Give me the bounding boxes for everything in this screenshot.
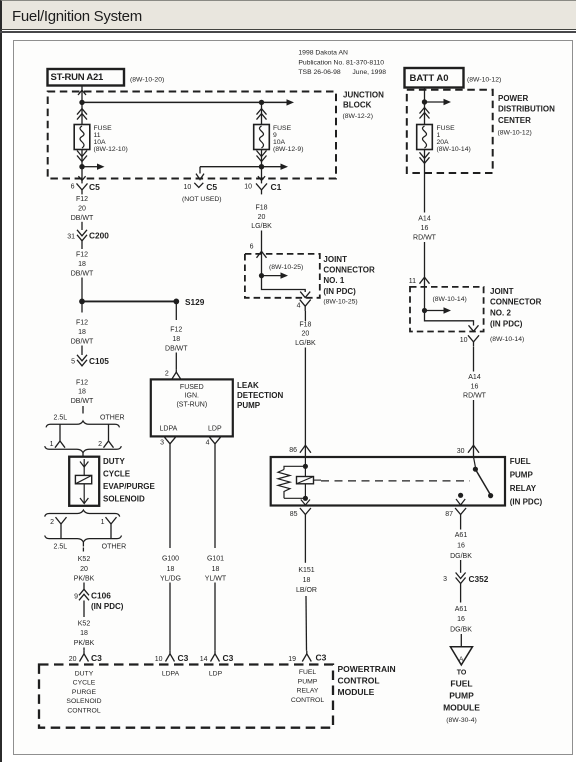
svg-text:20: 20 [69, 656, 77, 663]
svg-text:LB/OR: LB/OR [296, 587, 317, 594]
svg-text:RELAY: RELAY [297, 688, 319, 695]
svg-text:10A: 10A [273, 139, 286, 146]
svg-text:F12: F12 [76, 196, 88, 203]
svg-text:RD/WT: RD/WT [463, 393, 487, 400]
svg-text:16: 16 [457, 542, 465, 549]
svg-text:K52: K52 [78, 620, 91, 627]
svg-text:PUMP: PUMP [298, 678, 318, 685]
fuse F1 (FUSE 1 20A) [417, 125, 433, 150]
svg-text:LEAK: LEAK [237, 381, 259, 390]
svg-text:NO. 1: NO. 1 [323, 276, 344, 285]
svg-text:DB/WT: DB/WT [165, 345, 188, 352]
svg-text:19: 19 [288, 656, 296, 663]
svg-text:BATT A0: BATT A0 [410, 73, 449, 84]
svg-text:MODULE: MODULE [443, 702, 480, 712]
wire branch arrow right [262, 166, 282, 168]
leak detection pump box [151, 379, 233, 436]
wire JC2 internal jog [425, 311, 474, 326]
svg-text:85: 85 [290, 511, 298, 518]
joint connector no. 2 dashed box [410, 287, 484, 332]
svg-text:PUMP: PUMP [237, 401, 261, 410]
svg-text:18: 18 [78, 329, 86, 336]
wire BATT A0 into PDC [424, 88, 426, 102]
svg-text:18: 18 [80, 630, 88, 637]
wire S129 to LDP pin 2 [175, 301, 177, 320]
brace split below solenoid [45, 510, 120, 516]
wire bus to fuse 9 [261, 102, 263, 124]
svg-text:(8W-30-4): (8W-30-4) [446, 717, 476, 724]
svg-text:3: 3 [443, 576, 447, 583]
svg-text:C5: C5 [206, 182, 217, 192]
svg-text:86: 86 [289, 447, 297, 454]
svg-text:RD/WT: RD/WT [413, 235, 437, 242]
svg-text:PK/BK: PK/BK [74, 640, 95, 647]
wire JC1 to relay pin 86 [304, 311, 306, 321]
svg-text:G100: G100 [162, 556, 179, 563]
svg-text:A: A [459, 656, 464, 663]
svg-text:11: 11 [94, 132, 101, 139]
svg-text:OTHER: OTHER [100, 415, 125, 422]
svg-text:F12: F12 [76, 379, 88, 386]
svg-text:10A: 10A [94, 139, 107, 146]
svg-text:(8W-10-12): (8W-10-12) [467, 77, 501, 84]
svg-text:F12: F12 [76, 252, 88, 259]
svg-text:PK/BK: PK/BK [74, 575, 95, 582]
svg-text:87: 87 [445, 511, 453, 518]
wire bus to fuse 11 [81, 102, 83, 124]
svg-text:FUSE: FUSE [437, 125, 456, 132]
svg-text:C3: C3 [223, 653, 234, 663]
svg-text:DB/WT: DB/WT [71, 398, 94, 405]
svg-text:TSB 26-06-98: TSB 26-06-98 [298, 69, 341, 76]
PCM pin 19 C3 [306, 651, 308, 654]
svg-text:C5: C5 [89, 182, 100, 192]
relay coil box [297, 477, 314, 484]
horizontal rule under header [0, 31, 576, 32]
connector pin 1 (2.5L) [59, 424, 61, 441]
svg-text:DUTY: DUTY [75, 671, 94, 678]
wire G100 [169, 449, 171, 549]
svg-text:DETECTION: DETECTION [237, 391, 283, 400]
svg-text:11: 11 [409, 278, 416, 285]
svg-text:OTHER: OTHER [102, 544, 127, 551]
svg-text:DG/BK: DG/BK [450, 553, 472, 560]
svg-text:2.5L: 2.5L [53, 415, 67, 422]
page header bar [0, 0, 576, 30]
svg-text:CONTROL: CONTROL [338, 676, 380, 686]
svg-text:LDPA: LDPA [160, 426, 178, 433]
PCM pin 10 C3 [169, 651, 171, 654]
svg-text:A61: A61 [455, 532, 468, 539]
off-page reference triangle A [450, 647, 472, 665]
node fuse 9 output dot [259, 164, 264, 169]
svg-text:(IN PDC): (IN PDC) [91, 602, 124, 611]
svg-text:BLOCK: BLOCK [343, 100, 372, 109]
svg-text:G101: G101 [207, 556, 224, 563]
svg-text:14: 14 [200, 656, 208, 663]
svg-text:(ST-RUN): (ST-RUN) [176, 402, 207, 409]
svg-text:TO: TO [457, 670, 467, 677]
svg-text:A14: A14 [418, 216, 431, 223]
svg-text:10: 10 [460, 337, 468, 344]
svg-text:6: 6 [71, 184, 75, 191]
solenoid: duty cycle evap/purge solenoid box [69, 457, 99, 506]
svg-text:CONTROL: CONTROL [67, 707, 100, 714]
powertrain control module dashed box [39, 665, 333, 728]
svg-text:10: 10 [155, 656, 163, 663]
wire stub to variant brace [82, 406, 84, 414]
svg-text:CYCLE: CYCLE [103, 470, 131, 479]
relay coil exit chevron [301, 500, 310, 506]
connector C106 pin 9 (in PDC) [83, 583, 85, 591]
wire C1 to joint connector 1 [261, 231, 263, 276]
svg-text:F18: F18 [255, 204, 267, 211]
svg-text:LDPA: LDPA [162, 671, 180, 678]
wire arrow right in PDC [425, 101, 445, 103]
svg-text:A14: A14 [468, 374, 481, 381]
wire to splice S129 [81, 278, 83, 302]
svg-text:16: 16 [457, 616, 465, 623]
connector C5 pin 6 [78, 176, 85, 180]
svg-text:1: 1 [101, 519, 105, 526]
LDP pin 2 [175, 369, 177, 372]
svg-text:1: 1 [437, 132, 441, 139]
svg-text:EVAP/PURGE: EVAP/PURGE [103, 482, 156, 491]
svg-text:DG/BK: DG/BK [450, 627, 472, 634]
svg-text:FUSED: FUSED [180, 384, 204, 391]
wire K151 [304, 520, 306, 563]
svg-text:PUMP: PUMP [510, 471, 534, 480]
brace merge [45, 536, 122, 543]
svg-text:C106: C106 [91, 591, 111, 601]
svg-text:3: 3 [160, 439, 164, 446]
svg-text:FUEL: FUEL [450, 679, 472, 689]
svg-text:NO. 2: NO. 2 [490, 309, 511, 318]
svg-text:POWERTRAIN: POWERTRAIN [338, 664, 396, 674]
svg-text:JOINT: JOINT [323, 255, 347, 264]
svg-text:(8W-12-2): (8W-12-2) [343, 113, 373, 120]
svg-text:18: 18 [167, 566, 175, 573]
svg-text:June, 1998: June, 1998 [352, 69, 386, 76]
svg-text:DB/WT: DB/WT [71, 215, 94, 222]
svg-text:(8W-10-20): (8W-10-20) [130, 77, 164, 84]
svg-text:FUEL: FUEL [510, 457, 531, 466]
svg-text:4: 4 [206, 439, 210, 446]
relay coil circuit [304, 457, 306, 499]
svg-text:CONNECTOR: CONNECTOR [490, 298, 542, 307]
node bus dot right [259, 100, 264, 105]
svg-text:1998 Dakota AN: 1998 Dakota AN [298, 49, 348, 56]
fuse F11 (FUSE 11 10A) [74, 125, 90, 150]
connector chevron into junction block [78, 90, 86, 95]
svg-text:ST-RUN A21: ST-RUN A21 [51, 72, 105, 83]
power distribution center (dashed enclosure) [407, 90, 493, 173]
svg-text:C352: C352 [469, 574, 489, 584]
svg-text:CYCLE: CYCLE [73, 680, 96, 687]
node bus dot left [79, 100, 84, 105]
svg-text:4: 4 [297, 302, 301, 309]
svg-text:(8W-10-14): (8W-10-14) [490, 336, 524, 343]
wire fuse 11 to C5 [81, 150, 83, 184]
svg-text:C105: C105 [89, 356, 109, 366]
wire to fuse 1 [424, 102, 426, 125]
svg-text:POWER: POWER [498, 94, 528, 103]
svg-text:F12: F12 [170, 327, 182, 334]
PCM pin 20 C3 [83, 648, 85, 651]
PCM pin 14 C3 [214, 651, 216, 654]
svg-text:IGN.: IGN. [185, 392, 199, 399]
svg-text:20: 20 [80, 566, 88, 573]
svg-text:10: 10 [244, 184, 252, 191]
wire A61 [460, 520, 462, 530]
svg-text:YL/DG: YL/DG [160, 575, 181, 582]
left page border bar [0, 0, 2, 762]
svg-text:18: 18 [212, 566, 220, 573]
svg-text:20: 20 [258, 214, 266, 221]
svg-text:20: 20 [302, 331, 310, 338]
svg-text:LG/BK: LG/BK [251, 223, 272, 230]
svg-text:9: 9 [74, 594, 78, 601]
connector pin 2 (OTHER) [108, 424, 110, 441]
svg-text:DUTY: DUTY [103, 457, 125, 466]
svg-text:9: 9 [273, 132, 277, 139]
svg-text:DB/WT: DB/WT [71, 338, 94, 345]
svg-text:(8W-10-25): (8W-10-25) [269, 264, 303, 271]
node JC1 dot + arrow [259, 273, 264, 278]
wire fuse 1 down out of PDC [424, 150, 426, 213]
svg-text:(8W-10-25): (8W-10-25) [323, 299, 357, 306]
node fuse 11 output dot + branch arrow [79, 164, 84, 169]
svg-text:18: 18 [303, 577, 311, 584]
svg-text:K52: K52 [78, 556, 91, 563]
svg-text:LDP: LDP [209, 671, 223, 678]
svg-text:CONTROL: CONTROL [291, 697, 324, 704]
svg-text:(8W-10-14): (8W-10-14) [433, 296, 467, 303]
svg-text:5: 5 [71, 359, 75, 366]
svg-text:K151: K151 [298, 567, 314, 574]
wire fuse 9 to C1 [261, 150, 263, 184]
svg-text:PURGE: PURGE [72, 689, 97, 696]
mechanical link dashed [321, 480, 470, 482]
svg-text:(IN PDC): (IN PDC) [490, 320, 523, 329]
svg-text:F18: F18 [299, 321, 311, 328]
relay: fuel pump relay box [271, 457, 505, 506]
wire junction block bus [82, 101, 287, 103]
connector C105 pin 5 [81, 346, 83, 356]
svg-text:(8W-12-10): (8W-12-10) [94, 146, 128, 153]
svg-text:PUMP: PUMP [449, 691, 474, 701]
svg-text:2: 2 [98, 441, 102, 448]
svg-text:(NOT USED): (NOT USED) [182, 196, 222, 203]
svg-text:FUSE: FUSE [273, 125, 292, 132]
svg-text:S129: S129 [185, 297, 205, 307]
wire branch to not-used C5 [200, 166, 262, 168]
svg-text:(8W-12-9): (8W-12-9) [273, 146, 303, 153]
wire G101 [214, 449, 216, 549]
svg-text:Publication No. 81-370-8110: Publication No. 81-370-8110 [298, 59, 384, 66]
svg-text:16: 16 [471, 383, 479, 390]
wire from ST-RUN A21 into junction block [81, 87, 83, 103]
svg-text:CENTER: CENTER [498, 116, 531, 125]
resistor zigzag [278, 470, 290, 499]
svg-text:10: 10 [184, 184, 192, 191]
svg-text:JUNCTION: JUNCTION [343, 91, 384, 100]
svg-text:DB/WT: DB/WT [71, 270, 94, 277]
svg-text:C200: C200 [89, 231, 109, 241]
junction block (dashed enclosure) [48, 92, 336, 179]
svg-text:C3: C3 [316, 653, 327, 663]
svg-text:31: 31 [67, 233, 75, 240]
svg-text:18: 18 [78, 261, 86, 268]
svg-text:DISTRIBUTION: DISTRIBUTION [498, 105, 555, 114]
solenoid coil symbol [75, 475, 91, 483]
svg-text:16: 16 [421, 225, 429, 232]
svg-text:LG/BK: LG/BK [295, 340, 316, 347]
svg-text:20A: 20A [437, 139, 450, 146]
svg-text:LDP: LDP [208, 426, 222, 433]
svg-text:MODULE: MODULE [338, 687, 375, 697]
node ST-RUN A21 fuse feed box [48, 69, 125, 86]
svg-text:SOLENOID: SOLENOID [66, 698, 101, 705]
svg-text:CONNECTOR: CONNECTOR [323, 266, 375, 275]
svg-text:(IN PDC): (IN PDC) [323, 287, 356, 296]
svg-text:1: 1 [50, 441, 54, 448]
svg-text:C3: C3 [91, 653, 102, 663]
splice S129 crossbar [82, 300, 176, 302]
svg-text:30: 30 [457, 448, 465, 455]
svg-text:18: 18 [78, 389, 86, 396]
connector C200 pin 31 [81, 222, 83, 230]
svg-text:(8W-10-14): (8W-10-14) [437, 146, 471, 153]
svg-text:18: 18 [172, 336, 180, 343]
svg-text:6: 6 [250, 243, 254, 250]
svg-text:2: 2 [50, 519, 54, 526]
svg-text:2: 2 [165, 371, 169, 378]
svg-text:FUSE: FUSE [94, 125, 113, 132]
svg-text:C1: C1 [271, 182, 282, 192]
connector C352 pin 3 [460, 560, 462, 573]
connector C1 pin 10 [258, 176, 265, 180]
brace merge into solenoid [45, 446, 122, 453]
svg-text:A61: A61 [455, 606, 468, 613]
svg-text:FUEL: FUEL [299, 669, 317, 676]
svg-text:20: 20 [78, 205, 86, 212]
node BATT A0 feed box [405, 68, 464, 88]
wire stub below splice [81, 301, 83, 312]
svg-text:JOINT: JOINT [490, 287, 514, 296]
fuse F9 (FUSE 9 10A) [254, 125, 270, 150]
wire JC1 internal jog [262, 276, 306, 292]
svg-text:C3: C3 [178, 653, 189, 663]
svg-text:(IN PDC): (IN PDC) [510, 497, 543, 506]
joint connector no. 1 dashed box [245, 254, 320, 298]
wire JC2 to relay pin 30 [473, 347, 475, 372]
svg-text:SOLENOID: SOLENOID [103, 495, 145, 504]
svg-text:F12: F12 [76, 320, 88, 327]
svg-text:(8W-10-12): (8W-10-12) [498, 129, 532, 136]
wire to joint connector 2 [424, 242, 426, 311]
brace split to connector variants [46, 421, 120, 428]
node JC2 dot + arrow [422, 308, 427, 313]
svg-text:2.5L: 2.5L [53, 544, 67, 551]
svg-text:YL/WT: YL/WT [205, 575, 227, 582]
svg-text:RELAY: RELAY [510, 484, 537, 493]
relay switch [474, 457, 476, 467]
